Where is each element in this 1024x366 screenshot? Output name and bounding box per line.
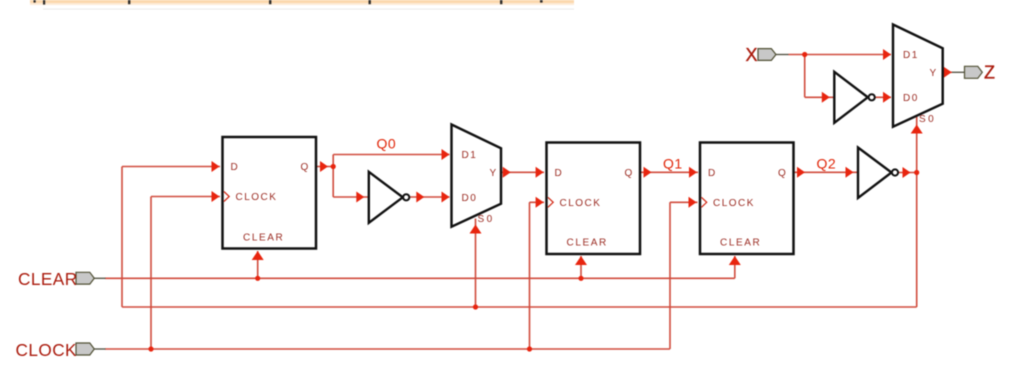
pin arrow FF3 Q output [797,167,805,178]
pin arrow U1 output [416,192,424,203]
port Z tag [965,66,983,78]
U1 bubble [403,194,409,200]
pin arrow U3 input [846,167,854,178]
svg-text:D0: D0 [903,93,919,104]
highlighted text strip (cut off at top) [30,0,574,3]
wire FF1 CLEAR branch [257,251,259,278]
mux M1 [452,125,502,227]
node S0 rail junction [473,304,478,309]
svg-text:Z: Z [984,63,995,83]
pin arrow FF1 Q output [320,161,328,172]
port Z stub [952,71,965,73]
svg-text:CLEAR: CLEAR [243,233,284,244]
svg-text:Y: Y [930,68,938,79]
pin arrow FF1 CLEAR input [252,251,264,260]
FF2 clock wedge [548,197,553,207]
U3 bubble [892,169,898,175]
pin arrow mux1 D0 input [442,192,450,203]
svg-text:Q: Q [301,162,310,173]
wire mux2 Y to Z [944,71,952,73]
svg-text:Q1: Q1 [663,155,683,171]
svg-text:CLOCK: CLOCK [16,340,78,360]
wire U1 output to mux1 D0 [409,196,449,198]
pin arrow FF2 D input [536,167,544,178]
wire Q1 net [640,171,698,173]
wire FF1 D branch [122,167,220,308]
svg-text:Q0: Q0 [377,136,397,152]
wire FF2 CLOCK branch [530,202,545,349]
node CLEAR rail junction FF2 [578,276,583,281]
svg-text:Q: Q [778,168,787,179]
wire U3 output to S0 node [898,172,917,174]
port CLOCK stub [94,348,105,350]
svg-text:D: D [708,168,717,179]
svg-text:CLOCK: CLOCK [236,192,278,203]
FF1 clock wedge [224,192,229,202]
pin arrow FF1 D input [212,161,220,172]
node X junction [802,52,807,57]
wire Q0 to inverter U1 [333,167,368,198]
port X tag [758,49,776,61]
svg-text:D: D [555,168,564,179]
flip-flop FF1 [223,137,317,249]
svg-text:X: X [746,45,758,65]
svg-text:D0: D0 [462,193,478,204]
wire Q0 to mux1 D1 [333,155,449,167]
pin arrow mux2 Y output [944,67,952,78]
svg-text:D1: D1 [462,150,478,161]
svg-text:D: D [231,162,240,173]
U2 bubble [869,94,875,100]
svg-text:CLEAR: CLEAR [567,238,608,249]
pin arrow FF1 CLOCK input [212,191,220,202]
pin arrow FF3 D input [689,167,697,178]
wire S0 feedback rail [122,306,917,308]
pin arrow FF2 CLEAR input [575,256,587,265]
node CLEAR rail junction FF1 [255,276,260,281]
inverter U2 [834,72,868,123]
pin arrow U3 output [903,167,911,178]
node S0 junction at U3 [914,170,919,175]
wire FF3 CLOCK branch [670,202,698,349]
svg-text:Q: Q [625,168,634,179]
svg-text:CLEAR: CLEAR [18,269,78,289]
pin arrow mux1 Y output [503,167,511,178]
port CLEAR tag [76,272,94,284]
pin arrow U2 input [822,92,830,103]
wire CLOCK rail [105,348,670,350]
wire CLEAR rail [105,277,735,279]
wire mux2 S0 vertical [916,117,918,307]
port CLEAR stub [94,277,105,279]
wire Q2 net [794,171,859,173]
wire X to inverter U2 [805,55,834,98]
svg-text:Y: Y [490,168,498,179]
pin arrow mux1 D1 input [442,149,450,160]
inverter U3 [858,148,892,198]
wire U2 output to mux2 D0 [875,96,891,98]
svg-text:S0: S0 [919,114,936,125]
pin arrow FF3 CLOCK input [689,197,697,208]
port X stub [776,54,789,56]
svg-text:D1: D1 [903,50,919,61]
node CLOCK rail junction FF1 [148,346,153,351]
wire mux1 S0 branch [475,219,477,308]
inverter U1 [369,172,403,223]
pin arrow FF2 Q output [644,167,652,178]
pin arrow FF3 CLEAR input [729,256,741,265]
mux M2 [893,25,943,127]
port CLOCK tag [76,343,94,355]
svg-text:CLEAR: CLEAR [720,238,761,249]
pin arrow mux1 S0 input [470,225,482,234]
FF3 clock wedge [701,197,706,207]
node Q0 junction [331,164,336,169]
pin arrow mux2 S0 input [911,125,923,134]
svg-text:S0: S0 [478,214,495,225]
pin arrow FF2 CLOCK input [536,197,544,208]
svg-text:CLOCK: CLOCK [713,198,755,209]
wire FF3 CLEAR branch [734,256,736,278]
pin arrow U1 input [356,192,364,203]
pin arrow mux2 D0 [883,92,891,103]
wire X input net [789,54,892,56]
svg-text:Q2: Q2 [817,156,837,172]
wire FF1 Q stub [316,166,333,168]
wire FF1 CLOCK branch [151,197,220,350]
svg-text:CLOCK: CLOCK [560,198,602,209]
wire mux1 Y to FF2 D [502,171,544,173]
flip-flop FF2 [547,143,641,255]
flip-flop FF3 [700,143,794,255]
wire FF2 CLEAR branch [580,256,582,278]
pin arrow mux2 D1 [883,49,891,60]
node CLOCK rail junction FF2 [527,346,532,351]
